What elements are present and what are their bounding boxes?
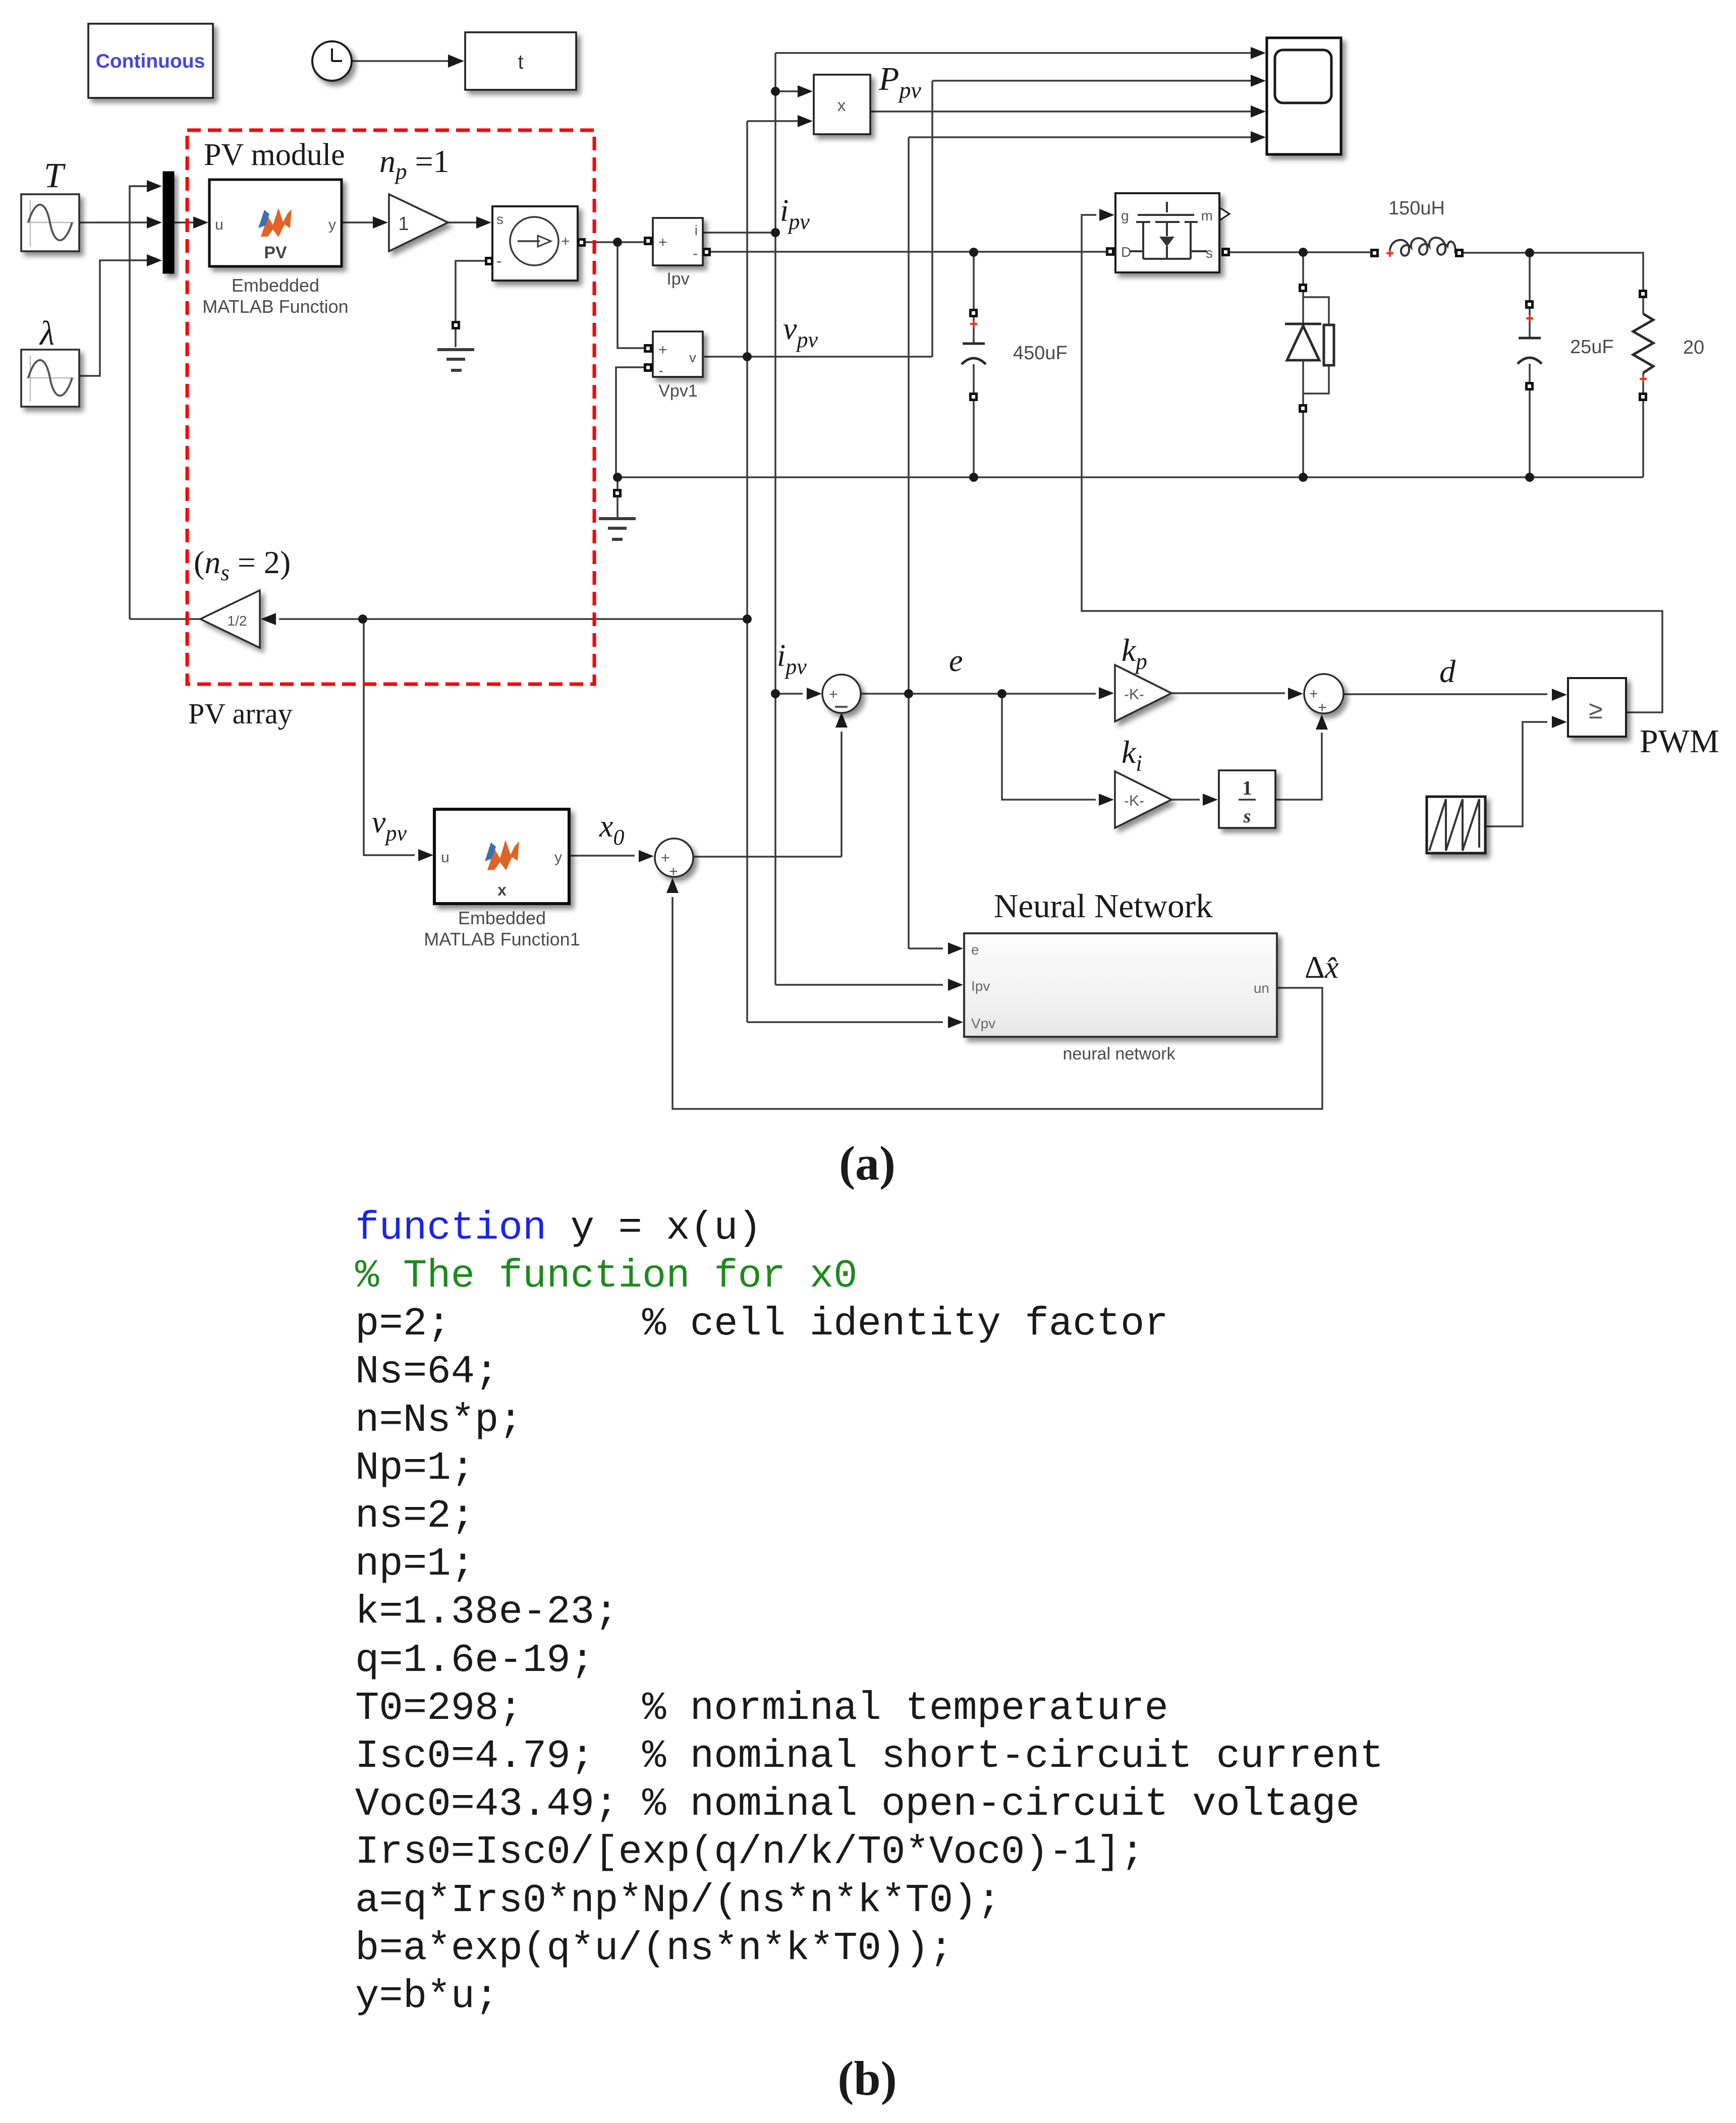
arrowhead neural net Ipv input bbox=[948, 979, 963, 991]
wire vpv down to MATLAB function1 bbox=[364, 619, 415, 855]
svg-text:+: + bbox=[669, 863, 678, 880]
arrowhead neural net Vpv input bbox=[948, 1016, 963, 1028]
port source output bbox=[577, 238, 586, 247]
svg-text:Neural Network: Neural Network bbox=[994, 887, 1213, 925]
block source lambda bbox=[21, 350, 79, 407]
block Vpv1 voltage measurement bbox=[653, 331, 703, 379]
svg-text:u: u bbox=[215, 216, 223, 233]
wire source minus to ground bbox=[456, 261, 486, 347]
wire ipv vertical bus bbox=[774, 53, 776, 985]
wire Ipv input to neural network bbox=[775, 984, 943, 986]
wire bottom rail bbox=[618, 476, 1643, 478]
svg-text:y=b*u;: y=b*u; bbox=[355, 1974, 498, 2019]
port mosfet D bbox=[1106, 247, 1114, 256]
svg-text:Ipv: Ipv bbox=[971, 978, 990, 994]
svg-text:y: y bbox=[554, 849, 562, 866]
port source minus bbox=[485, 257, 493, 265]
svg-text:a=q*Irs0*np*Np/(ns*n*k*T0);: a=q*Irs0*np*Np/(ns*n*k*T0); bbox=[355, 1878, 1001, 1923]
code line 3 bbox=[355, 1301, 1168, 1347]
arrowhead source s input bbox=[476, 216, 491, 229]
capacitor 450uF bbox=[962, 309, 986, 401]
node e junction bbox=[904, 689, 913, 698]
code line 1 bbox=[355, 1205, 762, 1251]
code line 6 bbox=[355, 1445, 475, 1491]
svg-text:s: s bbox=[1243, 806, 1251, 827]
svg-text:PV: PV bbox=[264, 243, 287, 262]
caption (b) bbox=[837, 2051, 897, 2105]
arrowhead product input 2 bbox=[798, 115, 813, 127]
arrowhead scope input 2 bbox=[1251, 75, 1266, 87]
wire mosfet s to diode node bbox=[1226, 251, 1370, 253]
block Continuous bbox=[88, 24, 213, 98]
svg-text:x: x bbox=[837, 96, 846, 115]
node capacitor top junction bbox=[969, 248, 978, 257]
svg-text:1: 1 bbox=[1242, 776, 1252, 799]
arrowhead ki input bbox=[1099, 794, 1114, 806]
label PV array bbox=[188, 697, 293, 730]
svg-text:450uF: 450uF bbox=[1013, 343, 1068, 364]
wire e from sum to kp bbox=[861, 693, 1096, 695]
svg-text:ki: ki bbox=[1122, 734, 1142, 776]
diode D1 bbox=[1285, 284, 1334, 413]
wire inductor to output node to resistor bbox=[1463, 253, 1643, 291]
port Ipv minus bbox=[702, 248, 711, 256]
wire integrator to sum2 bbox=[1275, 733, 1322, 800]
wire Ipv i output bbox=[703, 232, 775, 234]
label Embedded MATLAB Function1 bbox=[424, 908, 580, 949]
svg-text:kp: kp bbox=[1122, 632, 1147, 674]
code line 14 bbox=[355, 1829, 1144, 1875]
block mosfet bbox=[1115, 193, 1219, 272]
svg-text:(a): (a) bbox=[839, 1136, 895, 1190]
wire ipv into sum1 bbox=[775, 693, 803, 695]
wire vpv vertical bus bbox=[746, 121, 748, 1022]
svg-text:(b): (b) bbox=[837, 2051, 897, 2105]
sum1 ipv comparison bbox=[822, 675, 861, 713]
svg-text:Embedded: Embedded bbox=[232, 275, 319, 296]
wire Vpv v output bbox=[704, 356, 932, 358]
arrowhead into t block bbox=[448, 54, 464, 68]
arrowhead sum2 bottom input bbox=[1316, 714, 1328, 730]
svg-text:Voc0=43.49; % nominal open-cir: Voc0=43.49; % nominal open-circuit volta… bbox=[355, 1781, 1360, 1827]
block source T bbox=[21, 194, 79, 251]
arrowhead scope input 3 bbox=[1251, 105, 1266, 118]
svg-text:vpv: vpv bbox=[783, 312, 818, 352]
block clock bbox=[312, 41, 352, 81]
wire ki to integrator bbox=[1171, 799, 1200, 801]
wire vpv node to half gain bbox=[279, 618, 747, 620]
svg-text:+: + bbox=[661, 850, 670, 866]
label np = 1 bbox=[379, 143, 450, 184]
wire kp to sum2 bbox=[1171, 692, 1285, 694]
svg-text:-K-: -K- bbox=[1124, 793, 1144, 809]
wire node down to Vpv plus bbox=[618, 242, 644, 348]
arrowhead kp input bbox=[1099, 687, 1114, 699]
label T bbox=[44, 156, 66, 195]
svg-text:+: + bbox=[561, 233, 570, 250]
block mux bbox=[163, 172, 174, 273]
svg-text:un: un bbox=[1254, 980, 1269, 996]
block neural network bbox=[964, 933, 1277, 1037]
label 20 bbox=[1683, 337, 1704, 358]
code line 11 bbox=[355, 1686, 1168, 1731]
wire mux to PV function u bbox=[174, 221, 198, 224]
label ipv lower bbox=[777, 639, 807, 679]
label delta x hat bbox=[1305, 951, 1339, 985]
arrowhead gain input bbox=[373, 216, 388, 229]
svg-text:D: D bbox=[1121, 244, 1131, 260]
label 450uF bbox=[1013, 343, 1068, 364]
label e bbox=[949, 644, 963, 678]
wire diode snubber branch bbox=[1303, 297, 1329, 394]
svg-text:b=a*exp(q*u/(ns*n*k*T0));: b=a*exp(q*u/(ns*n*k*T0)); bbox=[355, 1926, 953, 1971]
arrowhead pwm input 2 bbox=[1552, 716, 1567, 728]
ground under source bbox=[437, 350, 474, 370]
code line 4 bbox=[355, 1349, 498, 1394]
label ki bbox=[1122, 734, 1142, 776]
svg-text:ns=2;: ns=2; bbox=[355, 1493, 475, 1539]
svg-text:PV array: PV array bbox=[188, 697, 293, 730]
svg-text:q=1.6e-19;: q=1.6e-19; bbox=[355, 1638, 594, 1683]
label Ppv bbox=[878, 61, 921, 103]
svg-text:Irs0=Isc0/[exp(q/n/k/T0*Voc0)-: Irs0=Isc0/[exp(q/n/k/T0*Voc0)-1]; bbox=[355, 1829, 1144, 1875]
svg-text:25uF: 25uF bbox=[1570, 337, 1614, 358]
svg-text:i: i bbox=[695, 222, 698, 238]
label neural network bbox=[1062, 1044, 1175, 1064]
label 25uF bbox=[1570, 337, 1614, 358]
svg-text:Δx̂: Δx̂ bbox=[1305, 951, 1339, 985]
svg-text:+: + bbox=[658, 234, 667, 251]
wire capacitor 25uF branch bbox=[1529, 253, 1531, 477]
svg-text:-: - bbox=[658, 362, 663, 379]
code line 16 bbox=[355, 1926, 953, 1971]
block gain np bbox=[389, 194, 448, 251]
arrowhead half gain input pointing left bbox=[261, 613, 276, 625]
wire PV y to gain bbox=[342, 221, 377, 224]
arrowhead pwm input 1 bbox=[1552, 689, 1567, 701]
arrowhead function1 u input bbox=[418, 849, 433, 861]
wire main dc line Ipv to mosfet D bbox=[707, 251, 1108, 253]
block controlled current source bbox=[492, 206, 578, 281]
svg-text:PWM: PWM bbox=[1640, 723, 1719, 760]
svg-text:vpv: vpv bbox=[372, 805, 407, 846]
wire gain to source s bbox=[448, 221, 481, 224]
sum3 x0 plus feedback bbox=[655, 839, 693, 880]
port Vpv minus bbox=[644, 363, 652, 372]
svg-text:k=1.38e-23;: k=1.38e-23; bbox=[355, 1589, 619, 1635]
svg-text:np =1: np =1 bbox=[379, 143, 450, 184]
label Ipv bbox=[666, 269, 689, 289]
ground under rail bbox=[599, 519, 636, 539]
label Embedded MATLAB Function bbox=[202, 275, 348, 317]
inductor 150uH bbox=[1370, 238, 1464, 257]
svg-text:Ipv: Ipv bbox=[666, 269, 689, 289]
svg-text:+: + bbox=[1318, 699, 1327, 716]
svg-text:20: 20 bbox=[1683, 337, 1704, 358]
svg-text:+: + bbox=[658, 342, 667, 358]
arrowhead scope input 4 bbox=[1251, 131, 1266, 143]
arrowhead product input 1 bbox=[798, 85, 813, 97]
sum2 pi output bbox=[1304, 674, 1343, 716]
wire lambda source to mux bbox=[79, 260, 153, 376]
svg-text:n=Ns*p;: n=Ns*p; bbox=[355, 1398, 523, 1443]
svg-text:≥: ≥ bbox=[1589, 696, 1602, 724]
code line 10 bbox=[355, 1638, 594, 1683]
svg-text:MATLAB Function: MATLAB Function bbox=[202, 296, 348, 317]
node ipv to sum junction bbox=[771, 689, 780, 698]
svg-text:-: - bbox=[496, 252, 502, 270]
svg-text:PV module: PV module bbox=[204, 138, 345, 172]
node output cap top junction bbox=[1525, 248, 1534, 257]
arrowhead sum2 left input bbox=[1288, 688, 1303, 700]
wire e input to neural network bbox=[909, 947, 943, 949]
arrowhead mosfet gate input bbox=[1099, 209, 1114, 221]
CODE LISTING bbox=[355, 1205, 1384, 2019]
arrowhead sum3 bottom input bbox=[666, 878, 679, 893]
arrowhead sum3 left input bbox=[639, 850, 654, 862]
label vpv lower bbox=[372, 805, 407, 846]
svg-text:Ppv: Ppv bbox=[878, 61, 921, 103]
label Vpv1 bbox=[658, 381, 698, 401]
arrowhead neural net e input bbox=[948, 942, 963, 955]
port source ground wire bbox=[452, 321, 460, 329]
wire feedback to mux input1 bbox=[130, 186, 153, 619]
node rail output cap junction bbox=[1525, 473, 1534, 482]
svg-text:t: t bbox=[518, 51, 523, 73]
wire d sum2 to pwm bbox=[1344, 693, 1547, 695]
svg-text:MATLAB Function1: MATLAB Function1 bbox=[424, 929, 580, 949]
block pwm relational operator bbox=[1568, 678, 1626, 737]
wire diode branch bbox=[1302, 252, 1304, 477]
wire e branch to ki bbox=[1002, 694, 1096, 800]
svg-text:ipv: ipv bbox=[780, 194, 810, 234]
wire scope input 2 bbox=[932, 80, 1259, 82]
label PWM bbox=[1640, 723, 1719, 760]
code line 2 bbox=[355, 1253, 858, 1299]
node rail diode junction bbox=[1299, 473, 1308, 482]
code line 17 bbox=[355, 1974, 498, 2019]
svg-text:1: 1 bbox=[398, 213, 409, 235]
svg-text:m: m bbox=[1201, 208, 1213, 224]
node rail cap junction bbox=[969, 473, 978, 482]
code line 5 bbox=[355, 1398, 523, 1443]
node diode top junction bbox=[1299, 248, 1308, 257]
wire product input 1 bbox=[775, 90, 806, 92]
port ground rail bbox=[613, 489, 622, 497]
wire sum3 to sum1 riser bbox=[693, 856, 842, 858]
wire half gain output bbox=[130, 618, 200, 620]
svg-text:x0: x0 bbox=[599, 809, 625, 850]
label ipv top bbox=[780, 194, 810, 234]
block scope bbox=[1267, 38, 1341, 154]
svg-text:-: - bbox=[693, 245, 698, 262]
node product input junction bbox=[771, 87, 780, 96]
svg-text:s: s bbox=[1206, 245, 1213, 261]
svg-text:Continuous: Continuous bbox=[96, 50, 205, 72]
label Neural Network bbox=[994, 887, 1213, 925]
node vpv to half gain junction bbox=[743, 614, 752, 624]
PV array dashed boundary bbox=[187, 130, 594, 684]
arrowhead mux input 1 bbox=[147, 180, 162, 192]
label kp bbox=[1122, 632, 1147, 674]
svg-text:T: T bbox=[44, 156, 66, 195]
block Ipv current measurement bbox=[653, 218, 703, 265]
svg-text:e: e bbox=[971, 942, 979, 958]
svg-text:p=2; % cell identity fa: p=2; % cell identity factor bbox=[355, 1301, 1168, 1347]
wire T source to mux bbox=[79, 221, 153, 224]
wire scope input 4 bbox=[909, 136, 1259, 138]
label vpv top bbox=[783, 312, 818, 352]
label lambda bbox=[39, 314, 54, 352]
code line 15 bbox=[355, 1878, 1001, 1923]
code line 12 bbox=[355, 1734, 1384, 1779]
block gain kp bbox=[1115, 665, 1171, 721]
svg-text:np=1;: np=1; bbox=[355, 1541, 475, 1587]
wire reference into sum1 bottom bbox=[841, 732, 843, 857]
node vpv to function1 junction bbox=[358, 614, 367, 624]
resistor 20 bbox=[1633, 290, 1653, 401]
svg-text:Vpv1: Vpv1 bbox=[658, 381, 698, 401]
svg-text:Np=1;: Np=1; bbox=[355, 1445, 475, 1491]
block product bbox=[814, 75, 870, 134]
code line 7 bbox=[355, 1493, 475, 1539]
svg-text:% The function for x0: % The function for x0 bbox=[355, 1253, 858, 1299]
svg-text:ipv: ipv bbox=[777, 639, 807, 679]
arrowhead integrator input bbox=[1203, 794, 1218, 806]
block Embedded MATLAB Function PV bbox=[209, 180, 342, 266]
caption (a) bbox=[839, 1136, 895, 1190]
svg-text:-K-: -K- bbox=[1124, 686, 1144, 703]
block half gain ns bbox=[200, 590, 260, 648]
port mosfet s bbox=[1221, 248, 1230, 256]
wire vpv to scope riser bbox=[931, 81, 933, 357]
wire pwm output to mosfet gate bbox=[1082, 215, 1662, 712]
port mosfet m output arrow bbox=[1220, 208, 1229, 220]
wire load resistor branch bbox=[1642, 298, 1644, 477]
JUNCTIONS AND ARROWS bbox=[358, 87, 1534, 698]
label ns = 2 bbox=[194, 544, 291, 585]
node source output junction bbox=[613, 238, 622, 247]
svg-text:(ns = 2): (ns = 2) bbox=[194, 544, 291, 585]
arrowhead sum1 left input bbox=[807, 688, 822, 700]
block gain ki bbox=[1115, 771, 1171, 828]
wire rail to ground2 bbox=[617, 477, 619, 518]
label x0 bbox=[599, 809, 625, 850]
wire x0 output to sum3 bbox=[569, 855, 635, 857]
code line 9 bbox=[355, 1589, 619, 1635]
block Embedded MATLAB Function1 bbox=[434, 809, 569, 904]
wire Vpv input to neural network bbox=[747, 1021, 943, 1023]
wire scope input 1 bbox=[775, 52, 1259, 54]
svg-text:s: s bbox=[496, 211, 503, 227]
block sawtooth generator bbox=[1427, 797, 1485, 853]
wire clock to t bbox=[351, 60, 454, 62]
wire neural network un feedback loop bbox=[673, 897, 1322, 1109]
svg-text:λ: λ bbox=[39, 314, 54, 352]
wire source out to Ipv bbox=[584, 241, 646, 243]
wire capacitor 450uF branch bbox=[973, 252, 975, 477]
capacitor 25uF bbox=[1518, 300, 1542, 390]
wire product input 2 bbox=[747, 120, 806, 122]
svg-text:u: u bbox=[441, 849, 450, 866]
label PV module bbox=[204, 138, 345, 172]
port Ipv plus bbox=[644, 237, 652, 245]
wire Vpv minus down to rail bbox=[616, 367, 644, 477]
node vpv junction bbox=[743, 352, 752, 361]
node ipv junction bbox=[771, 228, 780, 237]
wire e vertical bus bbox=[908, 137, 910, 948]
svg-text:1/2: 1/2 bbox=[228, 613, 247, 629]
svg-text:function y = x(u): function y = x(u) bbox=[355, 1205, 762, 1251]
svg-text:x: x bbox=[497, 881, 507, 899]
arrowhead scope input 1 bbox=[1251, 47, 1266, 59]
svg-text:+: + bbox=[1309, 686, 1318, 702]
node e to ki junction bbox=[997, 689, 1006, 698]
block t display bbox=[465, 32, 576, 90]
svg-text:Vpv: Vpv bbox=[971, 1016, 995, 1031]
svg-text:Embedded: Embedded bbox=[458, 908, 546, 928]
svg-text:neural network: neural network bbox=[1062, 1044, 1175, 1064]
svg-text:e: e bbox=[949, 644, 963, 678]
svg-text:+: + bbox=[829, 686, 838, 703]
svg-text:150uH: 150uH bbox=[1388, 198, 1445, 219]
svg-text:T0=298; % norminal tempera: T0=298; % norminal temperature bbox=[355, 1686, 1168, 1731]
arrowhead mux input 3 bbox=[147, 254, 162, 266]
wire sawtooth to pwm bbox=[1485, 722, 1547, 826]
code line 13 bbox=[355, 1781, 1360, 1827]
code line 8 bbox=[355, 1541, 475, 1587]
label 150uH bbox=[1388, 198, 1445, 219]
svg-text:y: y bbox=[328, 216, 336, 233]
label d bbox=[1439, 653, 1456, 689]
svg-text:g: g bbox=[1121, 208, 1129, 224]
svg-text:d: d bbox=[1439, 653, 1456, 689]
svg-text:v: v bbox=[689, 350, 696, 365]
arrowhead PV function u input bbox=[193, 216, 208, 229]
block integrator bbox=[1219, 770, 1275, 828]
svg-text:Ns=64;: Ns=64; bbox=[355, 1349, 498, 1394]
port Vpv plus bbox=[644, 344, 652, 353]
wire scope input 3 Ppv bbox=[870, 110, 1259, 113]
arrowhead mux input 2 bbox=[147, 216, 162, 229]
svg-text:Isc0=4.79; % nominal short-ci: Isc0=4.79; % nominal short-circuit curre… bbox=[355, 1734, 1384, 1779]
arrowhead sum1 bottom input bbox=[835, 712, 848, 728]
node rail left junction bbox=[613, 473, 622, 482]
